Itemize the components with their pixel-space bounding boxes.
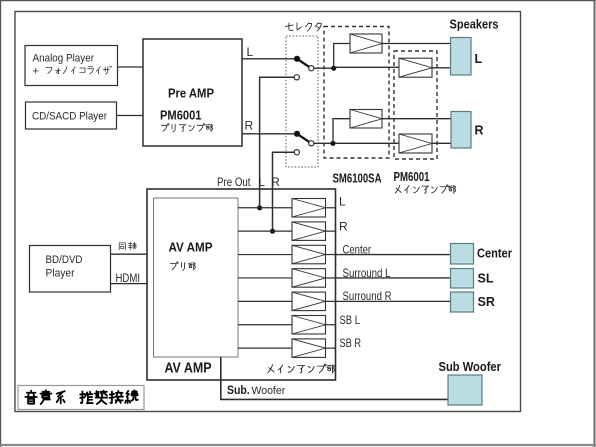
SM6100SA dashed box (324, 27, 389, 159)
wire junction L up to amp U1 (334, 44, 350, 69)
label main-amp-section bottom (katakana) (268, 365, 274, 373)
label phono-equalizer (katakana) (46, 68, 52, 74)
amp A6 (SB L) (292, 316, 326, 335)
wire Surround R to speaker (336, 300, 451, 302)
wire AV pre to amp A2 (238, 230, 292, 232)
wire U2 out to speaker L (432, 67, 451, 69)
wire U1 out to speaker L (382, 43, 451, 45)
svg-text:SB R: SB R (340, 336, 362, 350)
wire amp A1 out stub (326, 207, 336, 209)
junction dot R (330, 141, 335, 146)
svg-text:R: R (272, 177, 280, 189)
svg-text:L: L (475, 52, 483, 66)
switch SW-L lower contact (open) (294, 75, 299, 80)
svg-text:L: L (339, 195, 346, 209)
wire AV pre to amp A3 (238, 254, 292, 256)
switch SW-R lower contact (open) (294, 150, 299, 155)
wire HDMI BD to AV AMP (111, 283, 148, 285)
svg-text:CD/SACD Player: CD/SACD Player (32, 111, 107, 123)
wire AV pre to amp A6 (238, 324, 292, 326)
switch SW-R common contact (open) (309, 141, 314, 146)
wire junction R up to amp U3 (333, 119, 350, 144)
wire SW-R common to junction (314, 142, 334, 144)
amp U4 (PM6001 R) (399, 134, 432, 153)
box CD/SACD Player (26, 102, 117, 129)
wire U3 out to speaker R (382, 118, 451, 120)
diagram outer box (15, 12, 521, 412)
svg-text:R: R (339, 220, 348, 234)
svg-text:SM6100SA: SM6100SA (333, 171, 382, 186)
wire SW-R return to Pre Out R (273, 152, 295, 230)
wire Sub Woofer from AV pre (221, 357, 448, 399)
svg-text:Woofer: Woofer (252, 385, 286, 397)
wire AV pre to amp A7 (238, 347, 292, 349)
svg-text:SL: SL (478, 271, 494, 285)
wire U4 out to speaker R (432, 142, 451, 144)
svg-text:Speakers: Speakers (450, 17, 499, 32)
wire amp A6 out stub (326, 324, 336, 326)
wire SW-L return to Pre Out L (260, 77, 295, 206)
box BD/DVD Player (30, 246, 111, 293)
amp A4 (Surround L) (292, 269, 326, 288)
svg-text:Analog Player: Analog Player (33, 53, 95, 65)
box Analog Player (25, 46, 118, 86)
svg-text:R: R (245, 119, 254, 133)
svg-text:Pre Out: Pre Out (217, 177, 251, 189)
switch SW-R input contact (filled) (294, 131, 300, 137)
wire Surround L to speaker (336, 277, 451, 279)
wire amp A5 out stub (326, 300, 336, 302)
svg-text:Sub.: Sub. (227, 383, 250, 397)
svg-text:PM6001: PM6001 (394, 169, 430, 184)
speaker box SR (451, 292, 474, 312)
switch SW-L common contact (open) (309, 66, 314, 71)
wire SW-L common to junction (314, 67, 334, 69)
wire Center to speaker (336, 254, 451, 256)
PM6001 main-amp dashed box (394, 51, 437, 159)
speaker box SL (451, 269, 474, 289)
junction dot Pre Out R (270, 229, 275, 234)
speaker box R (451, 112, 471, 149)
wire Analog Player to Pre AMP (118, 66, 144, 68)
wire amp A4 out stub (326, 277, 336, 279)
wire amp A2 out stub (326, 230, 336, 232)
switch SW-L lever (297, 59, 311, 68)
wire Pre AMP L out (242, 58, 295, 60)
svg-text:AV AMP: AV AMP (169, 241, 213, 255)
svg-text:Player: Player (46, 268, 75, 280)
wire AV pre to amp A4 (238, 277, 292, 279)
wire amp A7 out stub (326, 347, 336, 349)
svg-text:Sub Woofer: Sub Woofer (439, 359, 502, 374)
wire amp A3 out stub (326, 254, 336, 256)
amp U1 (SM6100SA L) (350, 34, 382, 53)
amp U2 (PM6001 L) (399, 58, 432, 77)
page border frame (0, 0, 596, 2)
switch SW-R lever (297, 134, 311, 143)
wire Pre AMP R out (242, 133, 295, 135)
caption box (18, 386, 144, 410)
svg-text:PM6001: PM6001 (160, 109, 202, 123)
label pre-amp-section (katakana) (161, 124, 169, 132)
AV AMP outer box (147, 189, 336, 380)
svg-text:L: L (259, 177, 266, 189)
label selector (katakana) (285, 23, 293, 30)
amp U3 (SM6100SA R) (350, 110, 382, 129)
caption audio-system recommended-connection (kanji) (25, 391, 37, 404)
wire junction R to amp U4 (335, 142, 399, 144)
svg-text:SR: SR (478, 295, 495, 309)
amp A3 (Center) (292, 245, 326, 263)
amp A1 (L) (292, 199, 326, 218)
switch SW-L input contact (filled) (294, 56, 300, 62)
svg-text:R: R (475, 124, 484, 138)
label pre-section (katakana) (170, 262, 178, 270)
label main-amp-section under PM6001 (katakana) (395, 185, 401, 193)
label coaxial (kanji) (119, 243, 125, 250)
wire junction L to amp U2 (336, 66, 399, 68)
speaker box L (451, 38, 472, 76)
box Pre AMP PM6001 (143, 39, 242, 146)
wire AV pre to amp A1 (238, 207, 292, 209)
amp A5 (Surround R) (292, 292, 326, 311)
svg-text:SB L: SB L (340, 313, 361, 327)
selector dashed box (286, 36, 318, 167)
amp A7 (SB R) (292, 339, 326, 358)
amp A2 (R) (292, 222, 326, 241)
wire AV pre to amp A5 (238, 300, 292, 302)
AV AMP inner pre box (154, 198, 239, 357)
junction dot Pre Out L (257, 205, 262, 210)
wire coaxial BD to AV AMP (111, 253, 148, 255)
junction dot L (331, 66, 336, 71)
svg-text:Pre AMP: Pre AMP (168, 87, 214, 101)
svg-text:Center: Center (477, 247, 512, 261)
svg-text:AV AMP: AV AMP (165, 360, 212, 377)
svg-text:L: L (247, 45, 254, 59)
speaker box Sub Woofer (448, 375, 482, 405)
speaker box Center (451, 244, 474, 265)
svg-text:BD/DVD: BD/DVD (46, 254, 83, 266)
wire CD/SACD Player to Pre AMP (117, 115, 144, 117)
svg-text:+: + (33, 66, 39, 78)
